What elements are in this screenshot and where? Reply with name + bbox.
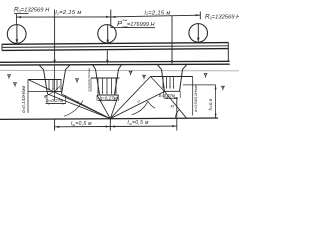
level mark 6 bbox=[204, 74, 207, 78]
fan line from right trapezoid bottom-left bbox=[110, 92, 164, 119]
b dimension right bbox=[164, 97, 178, 99]
label l2 bbox=[145, 10, 171, 16]
bottom dim tick left bbox=[54, 119, 56, 131]
svg-text:φ: φ bbox=[44, 94, 47, 99]
b dimension left bbox=[46, 103, 67, 105]
trapezoid right arrows bbox=[163, 77, 174, 87]
b dim extension ticks center bbox=[97, 96, 118, 102]
level mark 1 bbox=[8, 75, 11, 79]
level mark 4 bbox=[129, 71, 132, 75]
fan line from left trapezoid bottom-right bbox=[62, 94, 111, 119]
trapezoid left bottom line bbox=[47, 91, 63, 93]
b dim extension ticks left bbox=[47, 95, 66, 103]
arc phi left bbox=[45, 86, 61, 96]
rail left end cap bbox=[1, 44, 3, 50]
trapezoid center load line bbox=[91, 77, 120, 79]
ground line bbox=[0, 118, 218, 119]
trapezoid left load line bbox=[28, 79, 62, 81]
trapezoid left bbox=[39, 65, 70, 94]
label l1 bbox=[56, 10, 82, 16]
level mark 5 bbox=[143, 75, 146, 79]
fan line from left trapezoid bottom-left bbox=[48, 94, 111, 119]
ballast top faint line bbox=[0, 69, 239, 72]
bottom dim tick center bbox=[109, 119, 111, 131]
b dim extension ticks right bbox=[163, 92, 180, 98]
fan line center V right bbox=[110, 95, 118, 119]
label R right bbox=[205, 14, 241, 21]
dimension line l2 bbox=[111, 15, 201, 17]
svg-text:σ=0,22/0,74Н/мм: σ=0,22/0,74Н/мм bbox=[87, 68, 91, 91]
rail foot line bbox=[2, 49, 229, 51]
svg-text:b=0,27м: b=0,27м bbox=[46, 98, 64, 103]
fan line center V left bbox=[97, 95, 110, 119]
svg-text:h=0,6: h=0,6 bbox=[208, 98, 213, 110]
trapezoid center bottom line bbox=[97, 94, 119, 96]
svg-text:b=0,27м: b=0,27м bbox=[100, 96, 118, 101]
sleeper axis left bbox=[54, 9, 56, 61]
label P center bbox=[117, 18, 155, 28]
underline R left bbox=[14, 13, 28, 15]
sigma label center bbox=[87, 68, 91, 91]
svg-text:σ=0,04/0,2Н/мм: σ=0,04/0,2Н/мм bbox=[194, 84, 198, 112]
sleeper load arrow center bbox=[106, 50, 108, 62]
level mark 2 bbox=[14, 83, 17, 87]
svg-text:b=0,27м: b=0,27м bbox=[159, 93, 175, 98]
spread line right outward bbox=[165, 92, 187, 119]
trapezoid center arrows bbox=[98, 79, 116, 93]
arc alpha right bbox=[132, 101, 156, 115]
wheel left bbox=[7, 25, 26, 44]
beam top line bbox=[0, 61, 230, 62]
spread line right inner 45 bbox=[151, 77, 165, 92]
wheel arrow center bbox=[107, 25, 109, 42]
trapezoid left arrows bbox=[49, 80, 61, 89]
wheel center bbox=[98, 25, 116, 43]
rail head line bbox=[2, 43, 229, 45]
trapezoid right load line bbox=[151, 76, 193, 78]
wheel arrow right bbox=[197, 24, 199, 41]
label l sleeper right bbox=[128, 120, 150, 126]
tick right wheel bbox=[199, 12, 201, 20]
b dimension center bbox=[98, 99, 117, 101]
bottom dim extension right bbox=[176, 97, 178, 131]
underline P bbox=[111, 27, 155, 29]
wheel right bbox=[189, 24, 208, 43]
arc alpha left bbox=[64, 101, 83, 117]
arc 45 right outer bbox=[175, 110, 179, 119]
sigma leader right bbox=[192, 77, 194, 116]
fan line from right steep bbox=[110, 77, 150, 119]
h dimension bbox=[183, 84, 216, 86]
sigma label right bbox=[194, 84, 198, 112]
beam bottom line bbox=[0, 63, 230, 66]
label R left bbox=[14, 6, 50, 13]
trapezoid right bottom line bbox=[163, 90, 181, 92]
rail head bottom line bbox=[2, 46, 229, 48]
svg-text:l1=2,15 м: l1=2,15 м bbox=[56, 10, 82, 16]
level mark 3 bbox=[76, 79, 79, 83]
level mark 7 bbox=[222, 86, 225, 90]
sigma label left bbox=[21, 86, 26, 113]
label l sleeper left bbox=[71, 121, 92, 127]
trapezoid right bbox=[158, 65, 187, 92]
svg-text:σ=0,143Н/мм: σ=0,143Н/мм bbox=[21, 86, 26, 113]
center junction tick bbox=[110, 10, 112, 28]
rail right end cap bbox=[227, 43, 229, 62]
wheel arrow left bbox=[16, 24, 18, 42]
h dimension label bbox=[208, 98, 213, 110]
tick left wheel bbox=[15, 14, 17, 24]
trapezoid center bbox=[93, 65, 122, 95]
svg-text:45: 45 bbox=[171, 104, 175, 108]
fan line from left load line end bbox=[28, 80, 110, 119]
svg-text:=176999 Н: =176999 Н bbox=[127, 22, 155, 28]
sleeper axis right bbox=[171, 16, 173, 62]
bottom dimension line bbox=[55, 125, 177, 128]
sigma leader left bbox=[27, 80, 29, 114]
dimension line l1 bbox=[16, 16, 110, 18]
